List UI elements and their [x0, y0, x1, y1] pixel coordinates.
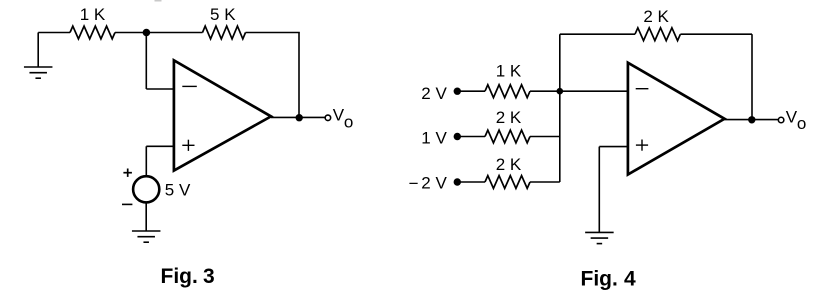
- svg-text:Fig.: Fig.: [161, 265, 198, 288]
- svg-text:2 V: 2 V: [421, 173, 447, 192]
- svg-text:2 V: 2 V: [421, 84, 447, 103]
- svg-text:o: o: [344, 112, 353, 131]
- svg-text:1 K: 1 K: [496, 62, 522, 81]
- svg-text:1 K: 1 K: [80, 5, 106, 24]
- svg-text:4: 4: [624, 267, 636, 290]
- svg-text:3: 3: [203, 265, 215, 288]
- svg-text:−: −: [409, 174, 419, 193]
- svg-text:1 V: 1 V: [421, 128, 447, 147]
- svg-text:2 K: 2 K: [496, 155, 522, 174]
- svg-text:o: o: [797, 114, 806, 133]
- svg-text:2 K: 2 K: [643, 7, 669, 26]
- svg-text:2 K: 2 K: [496, 108, 522, 127]
- svg-text:5 V: 5 V: [165, 180, 191, 199]
- svg-text:Fig.: Fig.: [581, 267, 618, 290]
- svg-text:5 K: 5 K: [210, 5, 236, 24]
